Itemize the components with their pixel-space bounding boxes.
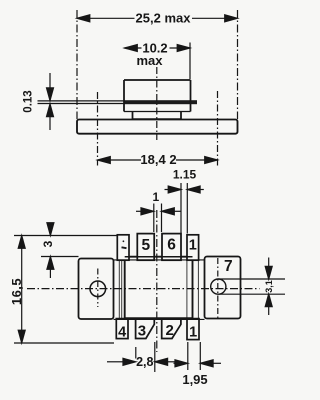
dimension 16.5 xyxy=(9,236,117,344)
svg-text:5: 5 xyxy=(141,237,150,254)
svg-text:16,5: 16,5 xyxy=(9,278,24,305)
dimension 1 (gap between leads 5 and 6) xyxy=(136,190,181,232)
wire cap bottom edge (plan) xyxy=(125,317,193,319)
dimension 25.2 max xyxy=(77,11,238,26)
lead 4 tab (bottom row corner) xyxy=(116,319,128,339)
svg-text:18,4 2: 18,4 2 xyxy=(140,152,176,167)
lead 4 tab (top row corner) xyxy=(117,235,129,260)
wire 25.2 left extension centerline xyxy=(76,10,78,119)
svg-text:1: 1 xyxy=(152,190,159,204)
wire centerline vertical (side view) xyxy=(156,67,158,140)
wire horizontal centerline (plan) xyxy=(27,288,260,290)
svg-text:3: 3 xyxy=(41,240,55,247)
lead 5 tab xyxy=(137,234,154,261)
svg-text:7: 7 xyxy=(224,258,233,275)
wire hole centerline right (side view) xyxy=(217,91,219,166)
svg-text:25,2 max: 25,2 max xyxy=(136,11,192,26)
wire hidden lead edges through flange xyxy=(119,258,198,319)
cap outline (plan view) xyxy=(125,257,193,319)
dimension 3 xyxy=(41,223,79,278)
svg-text:2,8: 2,8 xyxy=(136,355,153,369)
svg-text:4: 4 xyxy=(118,325,126,341)
svg-text:0.13: 0.13 xyxy=(23,90,35,112)
svg-text:1: 1 xyxy=(189,325,197,341)
svg-text:max: max xyxy=(136,53,163,68)
dimension 0.13 lead thickness xyxy=(23,73,54,130)
cap (side view) xyxy=(124,80,191,119)
lead 3 tab xyxy=(136,319,155,339)
svg-text:3,1: 3,1 xyxy=(264,280,274,293)
dimension 1.15 (gap between leads 6 and 1) xyxy=(165,168,204,234)
flange (side view) xyxy=(77,120,238,134)
lead 6 tab xyxy=(162,234,181,261)
wire slot centerline (right ear) xyxy=(217,258,219,320)
svg-text:1: 1 xyxy=(189,238,197,254)
mounting slot (right ear) xyxy=(211,279,285,294)
wire cap top edge (plan) xyxy=(125,256,193,258)
svg-text:6: 6 xyxy=(167,237,176,254)
svg-text:1,95: 1,95 xyxy=(182,372,207,387)
wire 25.2 right extension centerline xyxy=(237,10,239,119)
mounting hole (left ear) xyxy=(90,281,106,297)
dimension 3.1 slot width xyxy=(264,258,274,316)
wire hole centerline (left ear) xyxy=(97,269,99,308)
left ear of flange (plan) xyxy=(79,259,114,320)
wire flange bottom edge (plan) xyxy=(114,318,205,320)
svg-text:3: 3 xyxy=(138,323,146,340)
right ear of flange (plan) xyxy=(205,257,241,319)
lead (side view) xyxy=(38,100,198,104)
wire hole centerline left (side view) xyxy=(97,92,99,166)
svg-text:2: 2 xyxy=(166,322,174,339)
svg-text:1.15: 1.15 xyxy=(173,168,197,182)
dimension 18.42 xyxy=(98,152,218,167)
pin 4 mark (top corner tab) xyxy=(122,240,127,248)
wire vertical centerline (plan) xyxy=(156,210,158,352)
wire flange top edge (plan) xyxy=(114,259,205,261)
lead 2 tab xyxy=(162,319,181,339)
dimension 1.95 (lead 1 width) xyxy=(174,342,222,387)
lead 1 tab (bottom row corner) xyxy=(187,319,199,340)
dimension 10.2 max xyxy=(125,41,191,80)
dimension 2.8 (lead 3 width) xyxy=(107,342,177,372)
lead 1 tab (top row corner) xyxy=(187,235,199,260)
